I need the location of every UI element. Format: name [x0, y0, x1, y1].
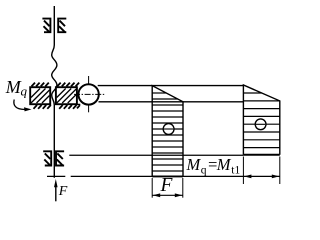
dimension F under left bar	[152, 175, 183, 198]
support top-left bracket	[42, 19, 50, 33]
torque bar right (hatched)	[243, 85, 279, 155]
shaft end circle with crosshair	[88, 76, 90, 112]
support bottom-left bracket	[43, 151, 51, 165]
negative sign circle in left bar	[163, 124, 174, 135]
svg-text:q: q	[21, 83, 28, 98]
dimension arrows under right bar	[243, 157, 279, 185]
svg-text:F: F	[160, 175, 174, 196]
svg-text:M: M	[216, 155, 232, 174]
torque direction curved arrow	[14, 100, 25, 110]
ground hatch ticks below blocks	[34, 104, 81, 108]
support bottom-right bracket	[56, 151, 64, 165]
support top-right bracket	[58, 19, 66, 33]
svg-text:q: q	[201, 164, 207, 176]
clamped block right (hatched rectangle)	[56, 87, 77, 104]
svg-text:F: F	[58, 184, 68, 199]
baseline of right torque bar extended left	[69, 154, 243, 156]
force F arrow bottom left	[54, 179, 68, 201]
shaft top line extending right	[98, 85, 244, 87]
svg-text:t1: t1	[231, 164, 240, 176]
ground hatch ticks above blocks	[32, 83, 80, 87]
label Mq = Mt1	[186, 155, 241, 176]
svg-text:M: M	[186, 155, 202, 174]
wire shaft vertical line with break wave	[52, 6, 57, 178]
negative sign circle in right bar	[255, 119, 266, 130]
svg-text:M: M	[5, 77, 22, 97]
baseline of left torque bar / dimension line	[47, 175, 65, 177]
torque bar left (hatched)	[152, 86, 183, 177]
shaft bottom line extending right	[99, 101, 244, 103]
clamped block left (hatched rectangle)	[30, 87, 50, 104]
